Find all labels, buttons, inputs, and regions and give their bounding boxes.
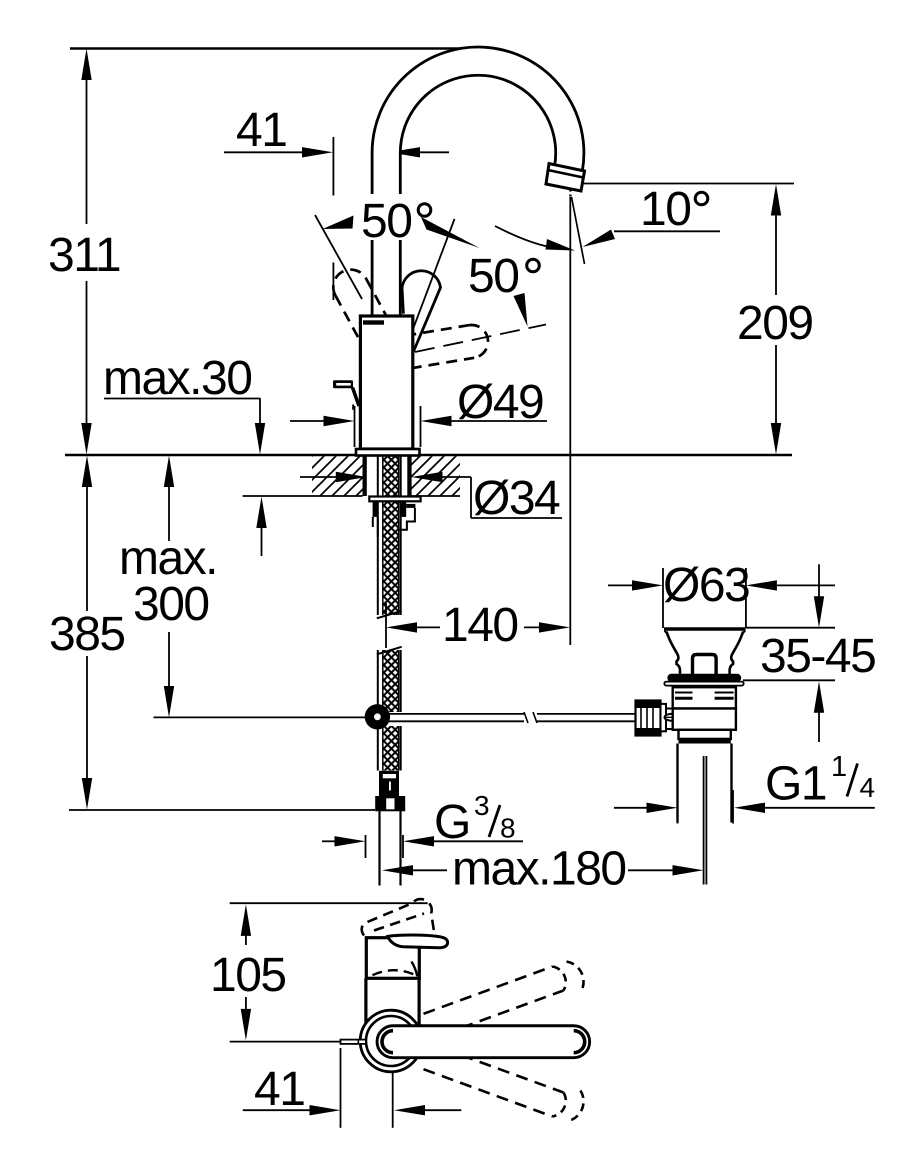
dimension 35-45	[743, 564, 875, 742]
G3/8 nut	[375, 796, 405, 811]
dimension 140 extension in hose gap	[377, 603, 402, 654]
rod ball joint	[365, 704, 390, 729]
rod pivot lens	[665, 714, 682, 721]
svg-text:35-45: 35-45	[760, 630, 875, 683]
dimension max.30	[103, 352, 267, 556]
braided hose segment middle	[378, 650, 401, 712]
braided hose segment lower	[378, 726, 401, 771]
angle 50deg first: left arrowhead	[323, 216, 354, 230]
shank outer walls	[363, 455, 412, 615]
dimension 385	[49, 456, 375, 811]
dimension 41 top	[224, 104, 449, 300]
aerator	[546, 164, 585, 192]
rod right bar segment 1	[389, 714, 524, 721]
counter top line	[65, 454, 792, 457]
solid lever knob (front view)	[388, 935, 448, 948]
svg-text:140: 140	[442, 599, 518, 652]
top reference line	[70, 47, 487, 49]
dimension 140	[386, 599, 570, 652]
dimension 105	[210, 904, 286, 1040]
dimension Ø34	[300, 472, 562, 525]
pop-up pin (bottom view)	[341, 1040, 366, 1044]
faucet upper block (front view)	[366, 938, 419, 979]
dimension Ø49	[290, 376, 547, 447]
svg-text:105: 105	[210, 949, 286, 1002]
drain tailpipe	[678, 744, 732, 885]
svg-text:G: G	[434, 796, 470, 849]
svg-text:max.30: max.30	[103, 352, 251, 405]
spout	[386, 61, 570, 330]
svg-text:41: 41	[236, 104, 286, 157]
dashed lever left (main view)	[333, 270, 386, 344]
dimension max.300	[119, 456, 217, 718]
svg-text:209: 209	[737, 297, 813, 350]
counter hatch right	[412, 456, 461, 496]
water stream dashed	[570, 189, 584, 265]
svg-text:8: 8	[500, 813, 515, 844]
label 50deg first	[361, 194, 431, 248]
faucet lower column (front view)	[366, 978, 419, 1032]
top reference line bottom view	[230, 902, 428, 904]
drain seal black band	[667, 674, 741, 682]
label 50deg second	[468, 250, 539, 327]
dashed side lever raised (bottom view)	[424, 962, 584, 1035]
mounting locknut	[369, 497, 420, 530]
svg-text:10: 10	[640, 183, 690, 236]
bottom reference line bottom view	[230, 1041, 340, 1043]
angle 50deg first: left line	[315, 215, 362, 299]
svg-text:G1: G1	[765, 758, 826, 811]
svg-text:Ø34: Ø34	[473, 472, 560, 525]
faucet body	[356, 316, 420, 456]
dashed lever right (main view)	[405, 325, 546, 369]
svg-text:41: 41	[254, 1063, 304, 1116]
svg-text:max.180: max.180	[452, 843, 626, 896]
spout tip reference line	[581, 183, 794, 185]
dimension G1 1/4	[614, 751, 875, 824]
dimension 209	[737, 184, 813, 455]
extension line spout tip axis	[569, 197, 571, 645]
svg-text:Ø63: Ø63	[663, 559, 749, 612]
dimension max.180	[382, 843, 704, 896]
svg-text:385: 385	[49, 608, 125, 661]
dimension 311	[48, 49, 120, 455]
dashed side lever lowered (bottom view)	[424, 1049, 584, 1122]
drain flange lip	[664, 682, 743, 686]
label 10deg with arrow	[583, 183, 721, 247]
svg-text:3: 3	[474, 790, 489, 821]
rod right bar segment 2	[537, 714, 635, 721]
svg-text:50: 50	[468, 250, 518, 303]
drain neck concave sides	[667, 632, 744, 675]
angle 50deg first: right line	[407, 219, 455, 345]
angle 50deg first: right arrowhead	[421, 217, 480, 248]
drain upper body	[673, 687, 736, 708]
pop-up rod left line	[154, 716, 367, 718]
svg-text:1: 1	[831, 751, 846, 783]
dimension Ø63	[608, 559, 835, 628]
supply tube	[380, 810, 401, 886]
washer	[373, 517, 378, 537]
dimension 41 bottom	[243, 1048, 461, 1128]
svg-text:50: 50	[361, 195, 411, 248]
svg-text:311: 311	[48, 229, 120, 282]
svg-text:4: 4	[860, 772, 875, 803]
handle slot bar	[363, 320, 384, 324]
svg-text:300: 300	[133, 578, 209, 631]
solid lever (main view)	[402, 271, 441, 352]
braided hose segment upper	[383, 455, 399, 615]
solid side lever (bottom view)	[377, 1026, 590, 1058]
rod clamp knurled knob	[636, 701, 675, 736]
drain clamp section	[673, 709, 736, 744]
pop-up knob on body	[333, 380, 359, 410]
dimension G3/8	[322, 790, 523, 858]
drain lifter knob	[693, 655, 717, 675]
svg-text:Ø49: Ø49	[457, 376, 543, 429]
swivel arc arrow	[495, 226, 575, 251]
escutcheon circles	[360, 1010, 422, 1072]
drain flange top	[664, 629, 746, 636]
dashed lever knob raised	[362, 899, 435, 937]
rod break marks	[524, 712, 537, 723]
counter hatch left	[243, 456, 363, 496]
hose connector	[379, 771, 399, 796]
